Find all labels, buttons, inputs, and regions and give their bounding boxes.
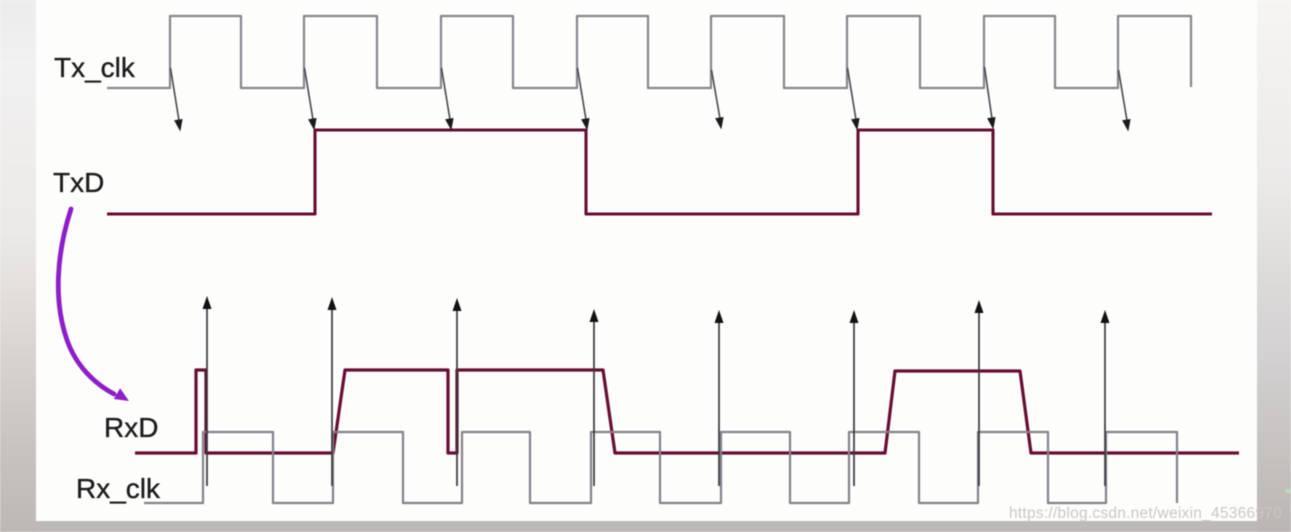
svg-text:Rx_clk: Rx_clk (76, 473, 161, 504)
sample arrow up 2 (331, 308, 333, 486)
sample arrow up 4 (593, 320, 595, 486)
left gradient strip (0, 0, 36, 532)
sample arrow up 3 (456, 309, 458, 486)
sample arrow up 1 (206, 307, 208, 486)
wire TxD waveform (107, 130, 1212, 214)
sample arrow down 4 (578, 68, 586, 119)
sample arrow down 5 (712, 70, 720, 118)
right gradient strip (1257, 0, 1291, 532)
green dot (1286, 489, 1291, 494)
sample arrow down 1 (171, 68, 179, 120)
svg-text:https://blog.csdn.net/weixin_4: https://blog.csdn.net/weixin_45366970 (1009, 505, 1282, 522)
svg-text:RxD: RxD (104, 412, 158, 443)
sample arrow down 8 (1119, 70, 1127, 120)
sample arrow up 7 (978, 311, 980, 486)
sample arrow down 7 (985, 67, 992, 118)
wire Rx_clk waveform (144, 432, 1177, 503)
wire Tx_clk waveform (107, 16, 1191, 88)
svg-text:TxD: TxD (53, 167, 104, 198)
sample arrow down 3 (442, 68, 450, 119)
bottom gray band (0, 521, 1291, 532)
sample arrow down 2 (305, 68, 313, 119)
sample arrow up 5 (718, 321, 720, 486)
purple arrow TxD to RxD (58, 209, 114, 394)
svg-text:Tx_clk: Tx_clk (54, 52, 136, 83)
wire RxD waveform (135, 370, 1239, 453)
sample arrow up 8 (1104, 321, 1106, 486)
sample arrow down 6 (848, 68, 856, 119)
sample arrow up 6 (853, 321, 855, 486)
